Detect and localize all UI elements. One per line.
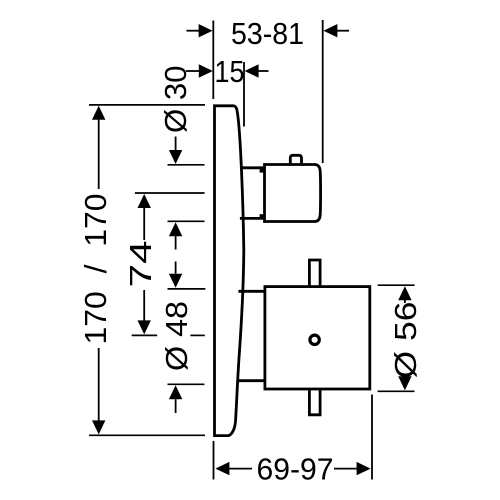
dim 53-81 arrow left: [187, 30, 200, 32]
svg-text:69-97: 69-97: [257, 452, 334, 487]
dim 170/170 tick top: [89, 104, 205, 106]
dim dia30 tick bottom: [168, 220, 205, 222]
dim 69-97 extension line right: [371, 395, 373, 480]
dim 74 tick bottom left part: [132, 334, 158, 336]
dim 53-81 extension line left: [212, 21, 214, 100]
dim 15 arrow right: [259, 70, 269, 72]
dim dia48 upper arrow: [175, 262, 177, 274]
dim 69-97 extension line left: [213, 441, 215, 480]
dim dia30 lower arrow: [169, 222, 182, 236]
dim 53-81 extension line right: [322, 20, 324, 163]
svg-text:15: 15: [215, 54, 245, 89]
svg-text:53-81: 53-81: [231, 16, 304, 51]
dim 69-97 arrow left: [215, 462, 229, 475]
dim dia30 upper arrow: [175, 137, 177, 151]
dim dia56 tick top: [378, 284, 415, 286]
escutcheon plate (tall curved wall plate): [215, 106, 244, 436]
dim dia56 tick bottom: [378, 390, 415, 392]
dim 15 extension line right: [243, 62, 245, 127]
dim 170/170 arrow down: [98, 348, 100, 421]
svg-text:Ø 48: Ø 48: [159, 301, 194, 371]
dim dia56 arrow down: [398, 376, 411, 390]
dim 69-97 arrow right: [334, 468, 357, 470]
svg-text:Ø 30: Ø 30: [158, 66, 193, 134]
svg-text:74: 74: [123, 240, 158, 287]
bottom pin: [309, 390, 320, 415]
dim dia48 tick bottom: [168, 383, 205, 385]
center screw circle: [310, 335, 319, 344]
valve box: [265, 287, 370, 389]
dim 170/170 tick bottom: [89, 434, 205, 436]
valve box connector bottom line: [237, 379, 264, 382]
top pin: [309, 260, 320, 286]
dim 74 arrow down: [143, 290, 145, 321]
dim 53-81 arrow right: [337, 30, 349, 32]
valve box connector top line: [238, 290, 263, 293]
handle grip cylinder: [265, 165, 321, 222]
dim dia48 lower arrow: [169, 385, 182, 399]
dim 170/170 arrow up: [92, 106, 105, 120]
dim dia48 tick top: [168, 288, 206, 290]
svg-text:Ø 56: Ø 56: [388, 302, 423, 379]
dim dia56 arrow up: [398, 286, 411, 300]
button on handle: [290, 155, 301, 164]
dim 74 tick top: [135, 192, 205, 194]
sleeve corner dot upper: [260, 168, 264, 172]
dim 74 arrow up: [138, 194, 151, 208]
dim 74 tick bottom right part: [190, 334, 204, 336]
sleeve corner dot lower: [260, 214, 264, 218]
svg-text:170 / 170: 170 / 170: [78, 194, 113, 345]
dim dia30 tick top: [168, 164, 205, 166]
dim 15 arrow left: [186, 70, 199, 72]
handle sleeve bottom line: [240, 217, 263, 220]
handle sleeve top line: [241, 166, 264, 169]
